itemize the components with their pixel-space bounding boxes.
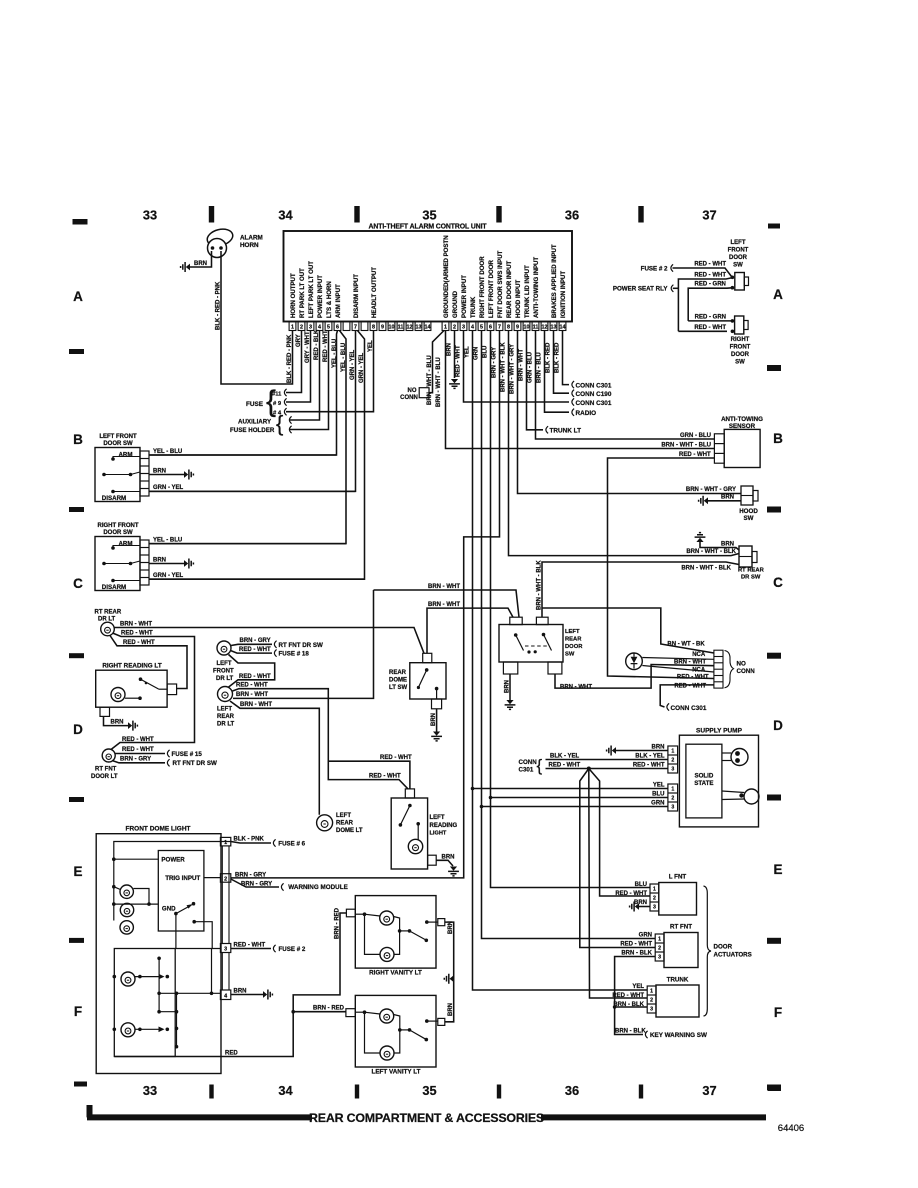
svg-text:RED - WHT: RED - WHT: [615, 891, 647, 897]
svg-text:RED - WHT: RED - WHT: [694, 262, 726, 268]
junction RED-WHT power branch: [587, 767, 591, 771]
svg-text:DISARM: DISARM: [102, 495, 126, 502]
wire YEL-BLU arm to right front door sw: [149, 331, 346, 544]
wire RED-WHT to right front door sw: [678, 330, 727, 332]
wire RED-WHT fuse2 to left front door sw: [673, 268, 732, 277]
svg-text:BRN - WHT - BLU: BRN - WHT - BLU: [436, 357, 442, 407]
dome lamp 2: [120, 903, 133, 916]
svg-text:DOOR: DOOR: [731, 352, 750, 358]
svg-text:RIGHT FRONT: RIGHT FRONT: [98, 523, 139, 529]
row divider ticks left margin: [69, 349, 84, 354]
svg-text:BRN: BRN: [448, 1003, 454, 1016]
svg-text:SW: SW: [565, 652, 575, 658]
ground and wire BRN at hood sw: [704, 497, 708, 504]
svg-text:RED - WHT: RED - WHT: [123, 640, 155, 646]
row divider ticks right margin: [767, 365, 781, 371]
svg-text:BRN - WHT: BRN - WHT: [428, 602, 460, 608]
svg-text:CONN: CONN: [737, 668, 756, 675]
svg-text:RADIO: RADIO: [576, 410, 597, 417]
svg-text:RIGHT VANITY LT: RIGHT VANITY LT: [369, 970, 422, 977]
svg-text:F: F: [774, 1005, 782, 1020]
inner columns: [158, 958, 160, 1011]
svg-text:3: 3: [653, 905, 656, 911]
ground BRN at left rear door sw: [509, 674, 511, 700]
svg-text:BRN: BRN: [721, 495, 734, 501]
wire YEL-BLU pin6 arm input to left front door sw: [149, 331, 338, 456]
svg-text:1: 1: [444, 325, 447, 331]
svg-text:LEFT PARK LT OUT: LEFT PARK LT OUT: [308, 261, 315, 318]
control unit right connector pins 1-14: [442, 322, 449, 331]
wire GRY pin2 to fuse 11: [286, 331, 302, 393]
svg-text:DOME: DOME: [389, 678, 407, 684]
svg-text:REAR: REAR: [336, 821, 354, 827]
wire trig input row: [204, 877, 221, 879]
svg-text:GROUNDED(ARMED POSTN: GROUNDED(ARMED POSTN: [443, 235, 450, 318]
svg-text:BRN - BLK: BRN - BLK: [615, 1028, 646, 1034]
svg-text:RT REAR: RT REAR: [95, 610, 122, 616]
svg-text:RED - WHT: RED - WHT: [122, 747, 154, 753]
dome lamp 1: [120, 885, 133, 898]
svg-text:FUSE HOLDER: FUSE HOLDER: [230, 427, 275, 434]
svg-text:BRN: BRN: [652, 744, 665, 750]
svg-text:RED - WHT: RED - WHT: [455, 345, 461, 377]
wire RED-WHT loop to left front door sw: [678, 278, 732, 332]
svg-text:C301: C301: [519, 766, 534, 773]
svg-text:LEFT: LEFT: [731, 240, 746, 246]
svg-text:BRN - RED: BRN - RED: [334, 907, 340, 939]
wire YEL-BLU right front door sw arm: [149, 543, 346, 545]
svg-text:RED - WHT: RED - WHT: [612, 993, 644, 999]
ground at pin 2 BRN: [454, 331, 456, 379]
svg-text:POWER INPUT: POWER INPUT: [317, 275, 324, 318]
wire NCA diode to connector: [642, 658, 714, 660]
svg-text:RT FNT DR SW: RT FNT DR SW: [279, 642, 323, 649]
svg-text:HORN OUTPUT: HORN OUTPUT: [290, 273, 297, 318]
pump motor symbol lower: [744, 789, 759, 804]
svg-text:DOOR: DOOR: [565, 644, 583, 650]
svg-text:3: 3: [671, 805, 674, 811]
svg-text:BRN: BRN: [153, 557, 166, 563]
wire BN-WT-BK branch to no conn connector: [542, 608, 714, 653]
svg-text:RT PARK LT OUT: RT PARK LT OUT: [299, 268, 306, 318]
svg-text:YEL: YEL: [653, 782, 665, 788]
left front dr lt: [217, 641, 231, 655]
svg-text:BLU: BLU: [635, 882, 647, 888]
ground and wire BRN supply pump: [612, 747, 616, 754]
svg-text:#11: #11: [272, 391, 282, 397]
wire RED-WHT rt fnt door lt to fuse 15: [115, 753, 165, 755]
svg-text:BRN - WHT: BRN - WHT: [560, 684, 592, 690]
svg-text:12: 12: [542, 325, 548, 331]
svg-text:14: 14: [560, 325, 566, 331]
svg-text:1: 1: [653, 887, 656, 893]
svg-text:6: 6: [489, 325, 492, 331]
svg-text:2: 2: [300, 325, 303, 331]
svg-text:36: 36: [565, 208, 579, 223]
svg-text:A: A: [73, 289, 83, 304]
svg-text:FRONT: FRONT: [728, 248, 749, 254]
svg-text:RED - GRN: RED - GRN: [695, 282, 726, 288]
pump motor symbol upper: [731, 749, 748, 766]
svg-text:YEL: YEL: [632, 984, 644, 990]
svg-text:FUSE # 18: FUSE # 18: [279, 651, 310, 658]
wire GRN-YEL right front door sw disarm: [149, 578, 365, 580]
wire BRN-RED to left vanity lt: [293, 1011, 346, 1013]
svg-text:BLK - RED: BLK - RED: [554, 342, 560, 373]
svg-text:LEFT: LEFT: [336, 813, 351, 819]
wire BRN-WHT-BLU pin1 to anti-towing sensor: [446, 331, 715, 449]
svg-text:RED - WHT: RED - WHT: [694, 273, 726, 279]
svg-text:CONN C301: CONN C301: [576, 382, 612, 389]
wire YEL pin8 to fuse 4: [286, 331, 374, 412]
wire BLK-RED pin13 to conn C190: [554, 331, 570, 394]
svg-text:2: 2: [224, 877, 227, 883]
svg-text:CONN: CONN: [519, 759, 538, 766]
control unit left connector pins 1-14: [289, 322, 296, 331]
svg-text:10: 10: [389, 325, 395, 331]
gnd switch: [174, 912, 178, 916]
left rear dr lt: [218, 687, 233, 702]
svg-text:SW: SW: [744, 515, 754, 522]
ground BRN at rear dome lt sw: [436, 709, 438, 732]
svg-text:B: B: [73, 432, 83, 447]
svg-text:33: 33: [143, 1083, 157, 1098]
svg-text:BRN - WHT - BLK: BRN - WHT - BLK: [686, 549, 736, 555]
svg-text:RED - WHT: RED - WHT: [694, 325, 726, 331]
svg-text:FRONT: FRONT: [730, 345, 751, 351]
ground and wire BRN pin4: [231, 994, 263, 996]
svg-text:7: 7: [498, 325, 501, 331]
bottom title bar REAR COMPARTMENT & ACCESSORIES: [87, 1105, 766, 1117]
svg-text:GRN - YEL: GRN - YEL: [153, 573, 184, 579]
svg-text:DOOR LT: DOOR LT: [91, 774, 118, 780]
dome lamp 5: [121, 1023, 135, 1037]
svg-text:BRN: BRN: [234, 988, 247, 994]
right vanity lt: [355, 896, 436, 969]
wire BRN-WHT to left rear door sw pin A: [374, 590, 520, 617]
svg-text:5: 5: [327, 325, 330, 331]
svg-text:DISARM: DISARM: [102, 584, 126, 591]
svg-text:FUSE # 6: FUSE # 6: [278, 840, 305, 847]
pin4 row: [159, 992, 220, 994]
wire RED-WHT sensor to no-conn connector: [608, 458, 715, 679]
wire GRN pin5 right front door bus: [482, 331, 656, 939]
wire RED-GRN to left front door sw: [688, 288, 732, 321]
svg-text:RIGHT: RIGHT: [731, 337, 750, 343]
svg-text:1: 1: [650, 989, 653, 995]
svg-text:ALARM: ALARM: [240, 235, 263, 242]
wire BRN-WHT left rear door sw to no conn connector: [555, 665, 714, 689]
svg-text:D: D: [73, 722, 83, 737]
svg-text:GRN - BLU: GRN - BLU: [527, 352, 533, 383]
svg-text:11: 11: [398, 325, 404, 331]
front dome light pin 2: [220, 874, 230, 883]
svg-text:REAR COMPARTMENT & ACCESSORIES: REAR COMPARTMENT & ACCESSORIES: [309, 1111, 544, 1125]
svg-text:3: 3: [462, 325, 465, 331]
svg-text:ACTUATORS: ACTUATORS: [714, 951, 752, 958]
svg-text:RED - WHT: RED - WHT: [620, 942, 652, 948]
dome lamp wiring: [133, 889, 149, 905]
svg-text:4: 4: [224, 993, 227, 999]
svg-text:BLU: BLU: [652, 791, 664, 797]
svg-text:C: C: [773, 575, 783, 590]
svg-text:TRIG INPUT: TRIG INPUT: [165, 875, 200, 882]
svg-text:RED - WHT: RED - WHT: [369, 773, 401, 779]
svg-text:BRN: BRN: [442, 854, 455, 860]
svg-text:RED - GRN: RED - GRN: [695, 315, 726, 321]
rear dome lt sw: [410, 663, 446, 699]
svg-text:POWER SEAT RLY: POWER SEAT RLY: [613, 286, 669, 293]
svg-text:33: 33: [143, 208, 157, 223]
wire BLU pin6 left front door bus: [491, 331, 651, 888]
svg-text:9: 9: [516, 325, 519, 331]
ground and wire BRN l fnt: [635, 903, 639, 910]
svg-text:CONN C190: CONN C190: [576, 391, 612, 398]
svg-text:LT SW: LT SW: [389, 685, 408, 691]
wire BRN-BLK trunk row: [615, 1006, 648, 1008]
wire BRN-WHT left rear dr lt to left rear dome lt: [230, 701, 319, 815]
wire RED-WHT rt rear dr lt to rt fnt door lt: [111, 633, 195, 750]
wire BLK-RED pin14 to conn C301: [563, 331, 570, 385]
svg-text:DOOR SW: DOOR SW: [103, 530, 133, 536]
svg-text:RED - WHT: RED - WHT: [549, 762, 581, 768]
svg-text:BRN - WHT - GRY: BRN - WHT - GRY: [686, 487, 736, 493]
svg-text:12: 12: [407, 325, 413, 331]
wire RED-WHT pin3 to conn C301: [464, 331, 570, 403]
ground BRN at left reading light: [436, 860, 453, 866]
svg-text:KEY WARNING SW: KEY WARNING SW: [650, 1032, 707, 1039]
svg-text:GRN - BLU: GRN - BLU: [680, 433, 711, 439]
svg-text:FUSE # 2: FUSE # 2: [279, 946, 306, 953]
ground BRN at right reading lt: [104, 716, 129, 725]
wire RED-WHT loop left front dr lt to left rear dr lt: [228, 655, 275, 688]
wire BLK-YEL conn C301 to supply pump: [546, 759, 668, 761]
wire BRN-WHT pin10 to trunk lt: [527, 331, 544, 430]
svg-text:TRUNK: TRUNK: [667, 977, 689, 984]
svg-text:BRN - GRY: BRN - GRY: [491, 347, 497, 378]
svg-text:SOLID: SOLID: [694, 773, 713, 780]
wire BLK-PNK pin1 to fuse 6: [231, 842, 271, 844]
svg-text:CONN C301: CONN C301: [671, 705, 707, 712]
svg-text:DR SW: DR SW: [741, 575, 761, 581]
svg-text:READING: READING: [430, 823, 458, 829]
switch output to pin3 column: [192, 920, 196, 924]
svg-text:L FNT: L FNT: [669, 874, 687, 881]
svg-text:2: 2: [653, 896, 656, 902]
wire RED-WHT conn C301 to connector: [660, 685, 714, 707]
svg-text:GND: GND: [162, 906, 176, 913]
svg-text:SUPPLY PUMP: SUPPLY PUMP: [696, 728, 743, 735]
svg-text:BRN - WHT: BRN - WHT: [120, 621, 152, 627]
svg-text:HOOD INPUT: HOOD INPUT: [515, 279, 522, 318]
svg-text:RT REAR: RT REAR: [738, 568, 765, 574]
wire BLK-RED-PNK alarm horn to pin 1: [221, 251, 293, 384]
svg-text:LEFT: LEFT: [430, 815, 445, 821]
svg-text:2: 2: [658, 946, 661, 952]
wire pin3 row: [175, 948, 220, 950]
svg-text:3: 3: [309, 325, 312, 331]
svg-text:BRN: BRN: [504, 680, 510, 693]
svg-text:37: 37: [702, 208, 716, 223]
svg-text:5: 5: [480, 325, 483, 331]
front dome light pin 3: [220, 944, 230, 953]
svg-text:{: {: [276, 411, 283, 436]
svg-text:REAR: REAR: [217, 714, 235, 720]
svg-text:RIGHT FRONT DOOR: RIGHT FRONT DOOR: [479, 256, 486, 318]
svg-text:BRN - WHT: BRN - WHT: [518, 349, 524, 381]
right front door sw (power seat circuit): [735, 316, 744, 334]
wire BRN left front door sw to ground: [149, 474, 184, 476]
wire RED-WHT left rear dr lt to left reading light: [233, 689, 409, 789]
svg-text:FRONT: FRONT: [213, 669, 234, 675]
diode lamp symbol: [626, 653, 643, 670]
wire GRN supply pump row: [482, 806, 668, 808]
wire BRN-WHT-BLK left rear door sw to rt rear dr sw: [542, 562, 739, 617]
svg-text:BRN - WHT: BRN - WHT: [428, 584, 460, 590]
svg-text:RED - WHT: RED - WHT: [236, 683, 268, 689]
hood switch: [741, 486, 753, 505]
svg-text:FUSE: FUSE: [246, 401, 264, 408]
wire BRN-BLU pin12 to radio: [545, 331, 570, 413]
dome lamp 3: [120, 921, 133, 934]
svg-text:ARM INPUT: ARM INPUT: [335, 284, 342, 318]
svg-text:BLK - RED - PNK: BLK - RED - PNK: [215, 281, 221, 330]
svg-text:DOOR SW: DOOR SW: [103, 441, 133, 447]
svg-text:LIGHT: LIGHT: [430, 831, 447, 837]
wire RED-WHT upper branch to left reading light pin: [328, 761, 410, 789]
svg-text:3: 3: [650, 1007, 653, 1013]
dome lamp 4: [121, 972, 135, 986]
wire GRN-YEL disarm to right front door sw: [149, 331, 365, 580]
svg-text:BRN - WHT: BRN - WHT: [240, 702, 272, 708]
svg-text:YEL: YEL: [464, 346, 470, 358]
svg-text:6: 6: [336, 325, 339, 331]
svg-text:TRUNK: TRUNK: [470, 296, 477, 318]
dome power module box: [158, 851, 204, 932]
svg-text:SW: SW: [735, 360, 745, 366]
svg-text:FUSE # 15: FUSE # 15: [172, 751, 203, 758]
svg-text:ANTI-THEFT ALARM CONTROL UNIT: ANTI-THEFT ALARM CONTROL UNIT: [368, 224, 487, 231]
svg-text:NO: NO: [408, 388, 417, 394]
svg-text:DOOR: DOOR: [729, 255, 748, 261]
wire BRN-GRY pin7 to front dome light trig input: [231, 331, 500, 878]
left rear door sw: [499, 625, 563, 663]
supply pump connector top: [668, 746, 678, 773]
svg-text:DR LT: DR LT: [217, 722, 235, 728]
dome interior power bus: [114, 842, 231, 921]
svg-text:C: C: [73, 576, 83, 591]
wire RED-WHT pin3 to fuse 2: [231, 948, 271, 950]
svg-text:BRN - BLU: BRN - BLU: [536, 352, 542, 383]
svg-text:BRN: BRN: [448, 921, 454, 934]
svg-text:LEFT FRONT: LEFT FRONT: [99, 434, 137, 440]
pin3 inner column: [211, 949, 213, 994]
svg-text:RED - WHT: RED - WHT: [121, 631, 153, 637]
svg-text:BRN - WHT - BLU: BRN - WHT - BLU: [661, 442, 711, 448]
svg-text:GROUND: GROUND: [452, 290, 459, 318]
wire BRN-GRY pin2 to warning module: [231, 879, 279, 887]
gnd switch common down: [175, 914, 177, 949]
svg-text:BLK - YEL: BLK - YEL: [635, 753, 665, 759]
wire RED-WHT rt rear dr lt to right reading lt: [110, 636, 187, 689]
svg-text:F: F: [74, 1004, 82, 1019]
svg-text:11: 11: [533, 325, 539, 331]
svg-text:FUSE # 2: FUSE # 2: [641, 265, 668, 272]
front dome light pin 4: [220, 990, 230, 1000]
no conn connector: [714, 650, 723, 688]
svg-text:14: 14: [425, 325, 431, 331]
svg-text:BRN - WHT - BLK: BRN - WHT - BLK: [681, 565, 731, 571]
ground at alarm horn BRN: [186, 264, 190, 271]
svg-text:RED - WHT: RED - WHT: [679, 452, 711, 458]
svg-text:FRONT DOME LIGHT: FRONT DOME LIGHT: [126, 826, 191, 833]
svg-text:1: 1: [671, 749, 674, 755]
svg-text:DOME LT: DOME LT: [336, 828, 363, 834]
svg-text:64406: 64406: [778, 1123, 804, 1134]
svg-text:CONN: CONN: [400, 395, 418, 401]
svg-text:RED - WHT: RED - WHT: [633, 762, 665, 768]
svg-text:BRN - GRY: BRN - GRY: [240, 638, 271, 644]
wire NCA diode lower to connector: [642, 666, 714, 673]
svg-text:3: 3: [671, 767, 674, 773]
svg-text:BRN: BRN: [634, 900, 647, 906]
wire GRN-BLU pin11 to anti-towing sensor: [536, 331, 715, 440]
svg-text:RT FNT DR SW: RT FNT DR SW: [173, 760, 217, 767]
svg-text:E: E: [773, 862, 782, 877]
wire GRN-YEL left front door sw disarm: [149, 490, 356, 492]
svg-text:BRN: BRN: [111, 719, 124, 725]
wire BRN right vanity to ground rail: [445, 922, 454, 1022]
wire RED-WHT pin5 to aux fuse holder: [290, 331, 329, 430]
svg-text:LEFT VANITY LT: LEFT VANITY LT: [372, 1069, 421, 1076]
wire YEL pin4 trunk bus: [473, 331, 648, 991]
svg-text:GRN: GRN: [651, 800, 664, 806]
svg-text:35: 35: [422, 1083, 436, 1098]
svg-text:D: D: [773, 718, 783, 733]
svg-text:LEFT: LEFT: [565, 629, 580, 635]
wire RED-WHT branch to trunk actuator: [589, 769, 647, 999]
no conn stub at pin 1: [429, 331, 444, 393]
svg-text:LTS & HORN: LTS & HORN: [326, 281, 333, 318]
svg-text:BLK - RED: BLK - RED: [545, 342, 551, 373]
svg-text:POWER INPUT: POWER INPUT: [461, 275, 468, 318]
svg-text:BRAKES APPLIED INPUT: BRAKES APPLIED INPUT: [551, 244, 558, 318]
svg-text:RT FNT: RT FNT: [670, 924, 692, 931]
wire RED-WHT branch to l fnt actuator: [589, 769, 650, 897]
wire BRN-WHT-GRY pin9 to hood sw: [518, 331, 742, 494]
wire RED-WHT conn C301 to supply pump: [546, 768, 668, 770]
svg-text:2: 2: [650, 998, 653, 1004]
svg-text:YEL - BLU: YEL - BLU: [153, 537, 182, 543]
ground on vanity rail: [450, 975, 454, 982]
svg-text:BRN: BRN: [153, 468, 166, 474]
rt rear dr sw: [739, 546, 752, 567]
svg-text:37: 37: [702, 1083, 716, 1098]
svg-text:BN - WT - BK: BN - WT - BK: [667, 641, 705, 647]
svg-text:34: 34: [278, 208, 293, 223]
wire BRN-BLK rt fnt to key warning: [615, 957, 656, 1035]
svg-text:RED - WHT: RED - WHT: [239, 674, 271, 680]
svg-text:ANTI-TOWING: ANTI-TOWING: [721, 416, 763, 423]
ground and wire BRN at rt rear dr sw: [696, 538, 703, 542]
svg-text:ARM: ARM: [118, 451, 132, 458]
wire GRN-YEL pin7 disarm to left front door sw: [149, 331, 356, 492]
svg-text:TRUNK LT: TRUNK LT: [550, 428, 582, 435]
wire GRY-WHT pin3 to fuse 9: [286, 331, 311, 403]
wire YEL supply pump row: [473, 788, 668, 790]
svg-text:DOOR: DOOR: [714, 943, 733, 950]
svg-text:BRN - WHT: BRN - WHT: [236, 692, 268, 698]
